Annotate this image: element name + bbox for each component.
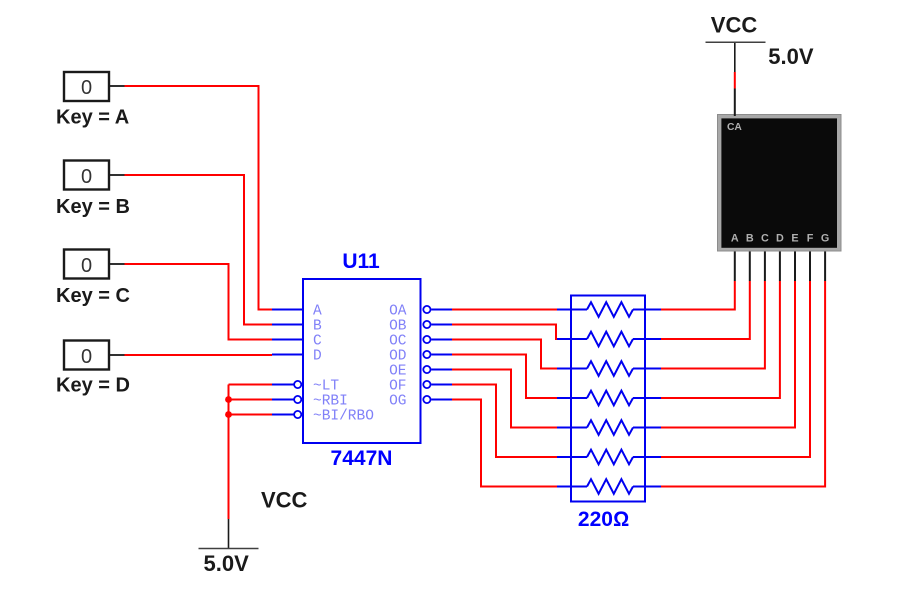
resistor pack body <box>571 296 645 502</box>
wire row6 to display pin F <box>661 281 810 457</box>
wire row5 to display pin E <box>661 281 795 428</box>
wire net B (key B to U11 pin B) <box>125 175 273 325</box>
svg-text:Key = C: Key = C <box>56 285 130 307</box>
svg-text:OC: OC <box>389 333 407 349</box>
svg-text:OE: OE <box>389 363 406 379</box>
pin C stub <box>272 339 303 341</box>
wire net D (key D to U11 pin D) <box>125 354 273 356</box>
pin OC stub with bubble <box>423 336 452 343</box>
svg-text:0: 0 <box>81 77 92 99</box>
svg-text:~LT: ~LT <box>313 378 339 394</box>
pin OF stub with bubble <box>423 381 452 388</box>
svg-text:Key = D: Key = D <box>56 375 130 397</box>
resistor R4 <box>557 391 661 406</box>
switch key A <box>64 72 125 101</box>
display pin C lead <box>764 249 766 281</box>
svg-text:5.0V: 5.0V <box>204 551 250 576</box>
display pin E lead <box>794 249 796 281</box>
pin OB stub with bubble <box>423 321 452 328</box>
svg-text:CA: CA <box>727 122 742 133</box>
seven segment display U2 body <box>718 115 842 252</box>
svg-text:E: E <box>791 232 798 244</box>
resistor R1 <box>557 302 661 317</box>
display pin D lead <box>779 249 781 281</box>
svg-text:0: 0 <box>81 346 92 368</box>
svg-text:0: 0 <box>81 166 92 188</box>
wire net OG to resistor row7 <box>452 400 557 487</box>
wire net OA to resistor row1 <box>452 309 557 311</box>
svg-text:220Ω: 220Ω <box>578 508 629 531</box>
switch key C <box>64 250 125 279</box>
junction at ~BI/RBO <box>225 411 232 418</box>
svg-text:7447N: 7447N <box>331 447 393 470</box>
svg-text:A: A <box>731 232 739 244</box>
wire net VCC2 vertical to U11 control pins <box>228 385 230 520</box>
wire ~RBI branch <box>229 399 273 401</box>
display pin A lead <box>734 249 736 281</box>
resistor R3 <box>557 361 661 376</box>
wire net OE to resistor row5 <box>452 370 557 428</box>
svg-text:OD: OD <box>389 348 406 364</box>
wire row3 to display pin C <box>661 281 765 369</box>
pin A stub <box>272 309 303 311</box>
svg-text:A: A <box>313 303 322 319</box>
wire net OD to resistor row4 <box>452 355 557 399</box>
svg-text:0: 0 <box>81 255 92 277</box>
svg-text:C: C <box>761 232 769 244</box>
pin B stub <box>272 324 303 326</box>
resistor R5 <box>557 420 661 435</box>
svg-text:~BI/RBO: ~BI/RBO <box>313 408 374 424</box>
svg-text:D: D <box>313 348 322 364</box>
svg-text:D: D <box>776 232 784 244</box>
switch key D <box>64 341 125 370</box>
wire net OB to resistor row2 <box>452 325 557 340</box>
svg-text:Key = B: Key = B <box>56 196 130 218</box>
pin ~RBI stub with bubble <box>272 396 301 403</box>
display pin F lead <box>809 249 811 281</box>
pin OD stub with bubble <box>423 351 452 358</box>
svg-text:C: C <box>313 333 322 349</box>
svg-text:OA: OA <box>389 303 407 319</box>
svg-text:U11: U11 <box>342 250 380 273</box>
svg-text:G: G <box>821 232 829 244</box>
VCC power symbol top <box>706 42 766 72</box>
resistor R2 <box>557 332 661 347</box>
switch key B <box>64 161 125 190</box>
VCC power symbol bottom <box>199 519 259 549</box>
wire ~BI/RBO branch <box>229 414 273 416</box>
wire row2 to display pin B <box>661 281 750 339</box>
wire ~LT branch <box>229 384 273 386</box>
svg-text:B: B <box>313 318 322 334</box>
pin D stub <box>272 354 303 356</box>
wire net A (key A to U11 pin A) <box>125 86 273 310</box>
pin OA stub with bubble <box>423 306 452 313</box>
svg-text:OG: OG <box>389 393 406 409</box>
wire net OC to resistor row3 <box>452 340 557 369</box>
display pin B lead <box>749 249 751 281</box>
wire row7 to display pin G <box>661 281 825 487</box>
svg-text:B: B <box>746 232 754 244</box>
pin OE stub with bubble <box>423 366 452 373</box>
svg-text:5.0V: 5.0V <box>768 44 814 69</box>
display pin G lead <box>824 249 826 281</box>
pin OG stub with bubble <box>423 396 452 403</box>
svg-text:~RBI: ~RBI <box>313 393 348 409</box>
svg-text:OF: OF <box>389 378 406 394</box>
wire row4 to display pin D <box>661 281 780 398</box>
pin ~LT stub with bubble <box>272 381 301 388</box>
pin ~BI/RBO stub with bubble <box>272 411 301 418</box>
display CA top lead <box>734 89 736 117</box>
junction at ~RBI <box>225 396 232 403</box>
wire net OF to resistor row6 <box>452 385 557 458</box>
svg-text:VCC: VCC <box>261 488 308 513</box>
wire net C (key C to U11 pin C) <box>125 264 287 340</box>
svg-text:OB: OB <box>389 318 407 334</box>
resistor R6 <box>557 450 661 465</box>
resistor R7 <box>557 479 661 494</box>
svg-text:F: F <box>807 232 814 244</box>
wire net VCC to display CA <box>734 72 736 89</box>
op IC U11 7447N body <box>303 279 421 443</box>
svg-text:VCC: VCC <box>711 13 758 38</box>
svg-text:Key = A: Key = A <box>56 107 129 129</box>
wire row1 to display pin A <box>661 281 735 310</box>
